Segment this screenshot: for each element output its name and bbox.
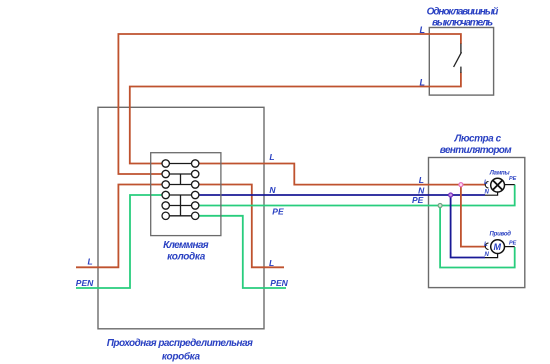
svg-text:PE: PE	[509, 241, 517, 247]
svg-text:L: L	[420, 25, 426, 35]
wire L outgoing bottom right from row3	[199, 185, 284, 268]
motor M1 symbol	[485, 240, 515, 258]
svg-text:Клеммная: Клеммная	[163, 240, 209, 251]
wire N branch to motor	[451, 195, 485, 258]
svg-text:N: N	[485, 190, 490, 196]
svg-text:PE: PE	[509, 176, 517, 182]
svg-text:Люстра с: Люстра с	[453, 134, 501, 145]
junction node on L (pink)	[459, 183, 463, 187]
svg-text:Привод: Привод	[490, 232, 512, 238]
wire L branch to motor	[461, 185, 486, 247]
wire L incoming bottom left	[76, 185, 162, 268]
svg-text:PE: PE	[272, 207, 284, 217]
terminal row 2	[162, 170, 199, 177]
wire L from row2 to switch top	[118, 34, 461, 174]
svg-text:вентилятором: вентилятором	[440, 145, 512, 156]
svg-text:L: L	[88, 257, 93, 267]
distribution box J1 (Проходная распределительная коробка)	[98, 107, 264, 328]
wire L switched output row1 to lamp	[199, 164, 485, 185]
switch box SW1 (Одноклавишный выключатель)	[429, 28, 493, 96]
wire PE output row5 to lamp	[199, 185, 515, 206]
terminal link rows 4-6	[180, 195, 182, 216]
terminal block rect (Клеммная колодка)	[151, 153, 221, 236]
lamp box (Люстра с вентилятором)	[429, 158, 525, 288]
terminal link rows 2-3	[180, 174, 182, 185]
svg-text:L: L	[419, 175, 424, 185]
svg-text:L: L	[484, 180, 488, 186]
terminal row 1	[162, 160, 199, 167]
lamp EL1 symbol	[485, 178, 515, 195]
svg-text:PEN: PEN	[76, 278, 94, 288]
wire L return from switch bottom to row1	[130, 73, 461, 164]
svg-text:Одноклавишный: Одноклавишный	[427, 7, 499, 18]
svg-text:N: N	[269, 185, 276, 195]
svg-text:N: N	[485, 252, 490, 258]
junction node on N (purple)	[449, 193, 453, 197]
svg-text:PE: PE	[412, 195, 424, 205]
terminal row 6	[162, 212, 199, 219]
svg-text:выключатель: выключатель	[432, 18, 493, 29]
terminal row 5	[162, 202, 199, 209]
wire N output row4 to lamp	[199, 194, 485, 196]
svg-text:колодка: колодка	[167, 252, 206, 263]
svg-text:M: M	[494, 242, 502, 252]
svg-text:L: L	[269, 258, 274, 268]
svg-text:Проходная распределительная: Проходная распределительная	[107, 338, 253, 349]
switch S1 contacts and blade	[454, 44, 462, 73]
svg-text:коробка: коробка	[162, 351, 201, 363]
terminal row 3	[162, 181, 199, 188]
wire PE branch to motor	[440, 206, 515, 268]
svg-text:Лампы: Лампы	[489, 170, 511, 176]
wire PEN incoming bottom left	[76, 195, 162, 288]
svg-text:L: L	[420, 78, 426, 88]
svg-text:N: N	[418, 185, 425, 195]
svg-text:L: L	[269, 152, 274, 162]
junction node on PE (gray-green)	[438, 204, 442, 208]
svg-text:PEN: PEN	[270, 278, 288, 288]
terminal row 4	[162, 191, 199, 198]
wire PEN outgoing bottom right from row6	[199, 216, 286, 288]
svg-text:L: L	[484, 242, 488, 248]
